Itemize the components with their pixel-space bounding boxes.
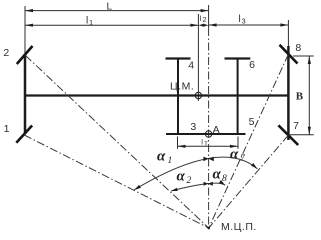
ray wheel 8 to M.C.P. [209, 54, 289, 228]
svg-text:6: 6 [249, 59, 255, 71]
wheel 4 cap [166, 57, 191, 59]
svg-text:l: l [86, 16, 88, 27]
dimension L line [25, 10, 209, 12]
svg-text:А: А [213, 124, 220, 136]
angle arc alpha1/alpha7 (big arc) [134, 157, 257, 190]
svg-text:1: 1 [168, 156, 173, 166]
svg-text:В: В [296, 90, 304, 102]
center of mass vertical line [197, 14, 199, 101]
dimension lt extension left [177, 137, 179, 149]
svg-text:4: 4 [188, 59, 194, 71]
ray wheel 2 to M.C.P. [26, 56, 209, 229]
svg-text:8: 8 [222, 174, 227, 184]
svg-text:3: 3 [242, 16, 246, 25]
dimension lt right arrow [230, 145, 238, 148]
bottom frame line (caps of wheels 3,5) [166, 133, 246, 135]
wheel 6 cap [225, 57, 251, 59]
dimension l3 left arrow [209, 23, 217, 26]
dimension B extension top [293, 55, 314, 57]
wheel 3 stem [177, 96, 179, 135]
svg-text:1: 1 [89, 18, 93, 27]
centerline vertical (axis of symmetry) [208, 5, 210, 28]
small arc center arrows [204, 182, 209, 186]
dimension l1 right arrow [190, 24, 198, 27]
extension line right axle top [287, 20, 289, 46]
right axle (wheels 7-8) [287, 46, 290, 140]
dimension l3 line [209, 24, 289, 26]
dimension B top arrow [308, 56, 311, 64]
svg-text:М.Ц.П.: М.Ц.П. [221, 221, 257, 233]
big arc right arrow (alpha7 outer) [251, 163, 257, 169]
dimension l3 right arrow [280, 23, 288, 26]
dimension L right arrow [201, 9, 209, 12]
dimension B bottom arrow [308, 127, 311, 135]
dimension l1 line [25, 24, 198, 26]
wheel 8 [280, 45, 298, 64]
dimension lt line [178, 145, 239, 147]
dimension lt left arrow [178, 145, 186, 148]
wheel 1 [16, 126, 32, 143]
svg-text:L: L [107, 2, 113, 13]
dimension l1 left arrow [25, 24, 33, 27]
wheel 7 [278, 125, 298, 145]
main frame line [25, 94, 288, 96]
dimension B extension bottom [288, 134, 313, 136]
small arc right arrow (alpha8 outer) [219, 180, 225, 185]
svg-text:α: α [213, 167, 222, 183]
svg-text:1: 1 [4, 123, 10, 135]
dimension l2 arrows [198, 24, 204, 27]
point A symbol [205, 131, 211, 137]
big arc center arrows [203, 157, 208, 162]
svg-text:α: α [157, 149, 166, 165]
svg-text:l: l [239, 14, 241, 25]
svg-text:3: 3 [190, 121, 196, 133]
svg-text:7: 7 [293, 120, 299, 132]
wheel 2 [17, 46, 33, 64]
ray wheel 7 to M.C.P. [209, 135, 289, 228]
svg-text:2: 2 [3, 47, 9, 59]
extension line left (front axle top) [24, 6, 26, 54]
angle arc alpha2/alpha8 (small arc) [171, 183, 225, 191]
svg-text:2: 2 [187, 176, 192, 186]
small arc left arrow (alpha2 outer) [171, 188, 178, 191]
wheel 5 stem [237, 96, 239, 135]
center of mass symbol (Ц.М.) [195, 92, 201, 98]
svg-text:α: α [177, 169, 186, 185]
svg-text:Ц.М.: Ц.М. [170, 80, 194, 92]
big arc left arrow (alpha1 outer) [134, 185, 141, 190]
svg-text:8: 8 [295, 42, 301, 54]
svg-text:т: т [204, 139, 208, 148]
M.C.P. point [207, 227, 210, 230]
dimension B line [308, 56, 310, 135]
left axle (wheels 1-2) [24, 54, 27, 134]
ray wheel 1 to M.C.P. [24, 135, 209, 228]
svg-text:2: 2 [202, 15, 206, 24]
dimension L left arrow [25, 9, 33, 12]
wheel 4 stem [177, 59, 179, 96]
svg-text:α: α [230, 147, 239, 163]
svg-text:5: 5 [249, 116, 255, 128]
dimension lt extension right [237, 137, 239, 149]
wheel 6 stem [237, 59, 239, 96]
